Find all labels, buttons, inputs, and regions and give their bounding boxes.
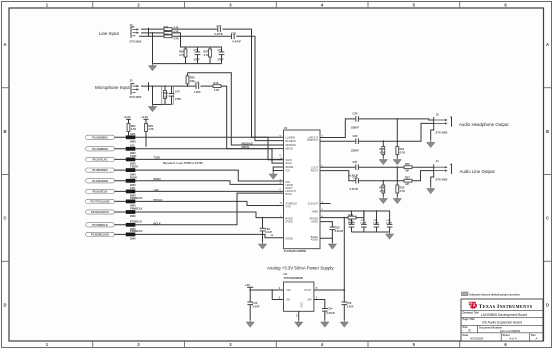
svg-text:P3MBCLK: P3MBCLK [130,196,143,200]
svg-text:B: B [3,129,6,134]
svg-text:4.7K: 4.7K [173,29,179,33]
svg-text:1.2UF: 1.2UF [373,223,380,225]
svg-text:P2MBCLK: P2MBCLK [130,207,143,211]
svg-text:D: D [3,302,6,307]
svg-text:ON: ON [286,298,290,302]
svg-text:4.7K: 4.7K [131,127,137,131]
svg-text:J1: J1 [436,159,439,163]
svg-text:TPS76333DBVR: TPS76333DBVR [284,276,304,280]
svg-text:+3V: +3V [245,283,250,287]
svg-text:Reroute 2. Loop T3760 to KY760: Reroute 2. Loop T3760 to KY760 [163,161,203,165]
svg-text:Indicates factory-default jump: Indicates factory-default jumper positio… [470,292,521,296]
svg-text:2.2UF: 2.2UF [253,305,260,309]
svg-text:P2MBCLK: P2MBCLK [130,229,143,233]
svg-text:LRC: LRC [130,186,135,190]
svg-text:T32D5: T32D5 [130,165,138,169]
svg-text:Page Title: Page Title [463,317,476,321]
svg-text:0.01UF: 0.01UF [335,229,344,233]
svg-text:Analog +3.3V 50mA Power Supply: Analog +3.3V 50mA Power Supply [267,266,334,271]
svg-text:B: B [469,329,471,333]
svg-text:4.7K: 4.7K [380,189,386,193]
svg-text:P5.1/SIMO/B: P5.1/SIMO/B [92,147,107,151]
svg-text:R27: R27 [204,50,209,54]
svg-text:RHPOUT: RHPOUT [307,138,318,142]
svg-text:A: A [536,337,538,341]
svg-text:MODE: MODE [286,165,294,169]
svg-text:C40: C40 [253,301,258,305]
svg-text:MICIN: MICIN [242,145,250,149]
svg-text:DVDD: DVDD [286,219,293,223]
svg-text:10K: 10K [190,79,195,83]
svg-text:0.47UF: 0.47UF [233,39,242,43]
svg-text:R22: R22 [131,124,136,128]
svg-text:CLKOUT: CLKOUT [308,201,319,205]
svg-text:C79: C79 [231,31,236,35]
svg-text:C: C [546,216,549,221]
svg-text:AVDD: AVDD [311,219,318,223]
svg-text:0.1UF: 0.1UF [265,230,272,234]
svg-text:4/23/2009: 4/23/2009 [470,336,484,340]
svg-text:SDA: SDA [130,132,136,136]
svg-text:4.7K: 4.7K [173,36,179,40]
svg-text:STX-3000: STX-3000 [436,131,448,135]
svg-text:0.47UF: 0.47UF [350,187,359,191]
svg-text:Drawing Title: Drawing Title [463,311,480,315]
svg-text:C78: C78 [218,48,223,52]
svg-text:BCLK: BCLK [286,192,293,196]
svg-text:MICBIAS: MICBIAS [286,143,297,147]
svg-text:P4.0/RXD0/A: P4.0/RXD0/A [92,168,108,172]
svg-text:GND: GND [301,302,304,308]
svg-text:4 of 4: 4 of 4 [509,336,517,340]
svg-text:P3.7/TXCLK/XD: P3.7/TXCLK/XD [90,200,109,204]
svg-text:2MH: 2MH [130,140,136,144]
svg-text:D: D [546,302,549,307]
svg-text:C50: C50 [347,301,352,305]
svg-text:I2S Audio Expansion Board: I2S Audio Expansion Board [482,321,522,325]
svg-text:T32D: T32D [130,154,136,158]
svg-text:U1: U1 [284,126,288,130]
svg-text:DGND: DGND [286,237,294,241]
svg-text:Date: Date [463,333,469,337]
svg-text:R35: R35 [400,185,405,189]
svg-text:STX-3000: STX-3000 [130,95,142,99]
svg-text:+3.3V: +3.3V [124,115,131,119]
svg-text:Line Input: Line Input [99,31,120,36]
svg-text:2MH: 2MH [130,214,136,218]
svg-text:RLINEIN: RLINEIN [286,139,296,143]
svg-text:P5.3/UCLK1: P5.3/UCLK1 [93,158,108,162]
svg-text:A: A [3,42,6,47]
svg-text:C76: C76 [194,48,199,52]
svg-text:4.7K: 4.7K [204,53,210,57]
svg-text:R34: R34 [164,25,169,29]
svg-text:R16: R16 [214,81,219,85]
svg-text:220UF: 220UF [351,126,359,130]
svg-text:C34: C34 [353,111,358,115]
svg-text:SCLK: SCLK [286,161,293,165]
svg-text:4.7K: 4.7K [380,150,386,154]
svg-text:R38: R38 [380,185,385,189]
svg-text:R25: R25 [164,29,169,33]
svg-text:U6: U6 [284,272,288,276]
svg-text:B: B [546,129,549,134]
svg-text:C: C [3,216,6,221]
svg-text:2.2UF: 2.2UF [347,305,354,309]
svg-text:4.7K: 4.7K [179,53,185,57]
svg-text:STX-3000: STX-3000 [436,177,448,181]
svg-text:C77: C77 [217,24,222,28]
svg-text:+3.3V: +3.3V [141,115,148,119]
svg-text:P2.0/ACLK/CA: P2.0/ACLK/CA [91,210,109,214]
svg-text:Audio Headphone Output: Audio Headphone Output [459,122,509,127]
svg-text:C47: C47 [175,90,180,94]
svg-text:R30: R30 [380,147,385,151]
svg-text:P3.0/LRCLK: P3.0/LRCLK [93,190,108,194]
svg-text:100-LAOS9806: 100-LAOS9806 [500,329,521,333]
svg-text:TLV320AIC23BPW: TLV320AIC23BPW [284,249,307,253]
svg-text:HP: HP [406,182,410,186]
svg-text:C38: C38 [353,175,358,179]
svg-text:A: A [546,42,549,47]
svg-text:0.01UF: 0.01UF [327,311,336,315]
svg-text:4.7K: 4.7K [400,189,406,193]
svg-text:R19: R19 [163,91,168,95]
svg-text:P5.6/SMCLK/D: P5.6/SMCLK/D [91,233,109,237]
svg-text:VIN: VIN [286,288,291,292]
svg-text:27PF: 27PF [175,97,182,101]
svg-text:J5: J5 [436,112,439,116]
svg-text:RXD0: RXD0 [130,175,137,179]
svg-text:Audio Line Output: Audio Line Output [460,169,496,174]
svg-text:1.2UF: 1.2UF [194,90,201,94]
svg-text:P4.1/RXD1/B: P4.1/RXD1/B [92,179,108,183]
svg-text:2MH: 2MH [130,237,136,241]
svg-text:4.7K: 4.7K [148,127,154,131]
svg-text:R36: R36 [405,162,410,166]
svg-text:27PF: 27PF [218,58,225,62]
svg-text:27PF: 27PF [194,58,201,62]
svg-text:R31: R31 [400,147,405,151]
svg-text:4.7K: 4.7K [400,150,406,154]
svg-text:VOUT: VOUT [304,288,312,292]
svg-text:NR: NR [307,298,311,302]
svg-text:STX-3000: STX-3000 [130,40,142,44]
svg-text:/CS: /CS [286,169,291,173]
svg-text:2.2UF: 2.2UF [386,223,393,225]
svg-text:C54: C54 [328,306,333,310]
svg-text:220UF: 220UF [351,148,359,152]
svg-text:MICIN: MICIN [286,146,293,150]
svg-text:R29: R29 [148,124,153,128]
svg-text:R24: R24 [164,33,169,37]
svg-text:C58: C58 [335,226,340,230]
svg-text:P5.5/SMCLK: P5.5/SMCLK [92,223,107,227]
svg-text:4.7K: 4.7K [349,221,354,224]
svg-text:LAOS9806 Development Board: LAOS9806 Development Board [481,313,527,317]
svg-text:10K: 10K [163,95,168,99]
svg-text:PT5BCLK: PT5BCLK [130,219,142,223]
svg-text:4.7K: 4.7K [173,26,179,30]
svg-text:C48: C48 [195,80,200,84]
svg-text:AGND: AGND [311,238,319,242]
svg-text:SCL: SCL [130,143,136,147]
svg-text:HP: HP [406,169,410,173]
svg-text:MICBIAS: MICBIAS [242,141,253,145]
svg-text:C30: C30 [353,134,358,138]
svg-text:0.47UF: 0.47UF [215,32,224,36]
svg-text:R60: R60 [349,214,354,217]
svg-text:VMID: VMID [312,210,319,214]
svg-text:XTO: XTO [286,204,291,208]
svg-text:1.2UF: 1.2UF [360,223,367,225]
svg-text:R20: R20 [190,76,195,80]
svg-text:P5.0/SOMI/A: P5.0/SOMI/A [92,135,107,139]
svg-text:C52: C52 [265,227,270,231]
svg-text:ROUT: ROUT [311,169,319,173]
svg-text:C37: C37 [353,160,358,164]
svg-text:Microphone Input: Microphone Input [95,85,131,90]
svg-text:R37: R37 [405,175,410,179]
svg-text:4.7K: 4.7K [214,88,220,92]
svg-text:R26: R26 [179,50,184,54]
svg-text:Size: Size [463,325,469,329]
